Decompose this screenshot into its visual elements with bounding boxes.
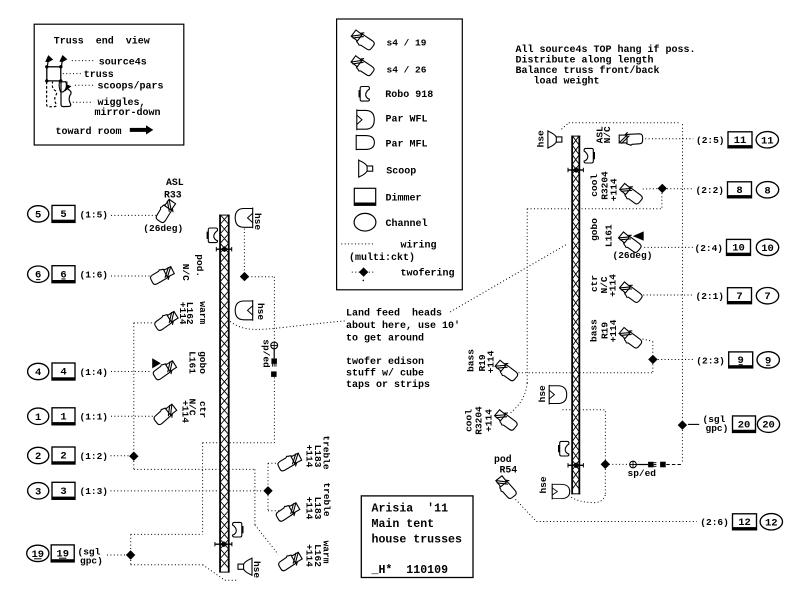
svg-text:Dimmer: Dimmer bbox=[386, 192, 422, 204]
svg-text:Channel: Channel bbox=[386, 218, 428, 230]
svg-text:+114: +114 bbox=[485, 350, 496, 373]
svg-text:2: 2 bbox=[60, 451, 66, 463]
svg-text:_H* 110109: _H* 110109 bbox=[371, 564, 449, 577]
svg-text:gpc): gpc) bbox=[706, 423, 729, 434]
svg-text:3: 3 bbox=[60, 486, 66, 498]
svg-text:(26deg): (26deg) bbox=[613, 250, 653, 261]
svg-text:(1:5): (1:5) bbox=[80, 209, 109, 220]
svg-text:(multi:ckt): (multi:ckt) bbox=[349, 252, 415, 264]
svg-text:8: 8 bbox=[736, 185, 742, 197]
svg-text:R33: R33 bbox=[164, 189, 182, 200]
svg-text:about here, use 10': about here, use 10' bbox=[346, 320, 460, 332]
svg-text:(1:2): (1:2) bbox=[80, 451, 109, 462]
svg-text:6: 6 bbox=[60, 269, 66, 281]
svg-text:11: 11 bbox=[734, 135, 747, 147]
svg-text:source4s: source4s bbox=[99, 58, 147, 69]
svg-text:house trusses: house trusses bbox=[372, 533, 462, 546]
svg-text:L161: L161 bbox=[187, 351, 198, 374]
svg-text:2: 2 bbox=[35, 451, 41, 463]
svg-text:7: 7 bbox=[736, 291, 742, 303]
svg-text:wiring: wiring bbox=[401, 239, 437, 251]
svg-text:L161: L161 bbox=[603, 224, 614, 247]
svg-text:gpc): gpc) bbox=[80, 556, 103, 567]
svg-text:twofer edison: twofer edison bbox=[346, 356, 424, 368]
svg-text:Arisia '11: Arisia '11 bbox=[372, 503, 449, 516]
svg-text:Distribute along length: Distribute along length bbox=[516, 55, 654, 67]
svg-text:mirror-down: mirror-down bbox=[95, 107, 161, 119]
svg-text:warm: warm bbox=[197, 301, 208, 324]
svg-text:truss: truss bbox=[84, 70, 114, 81]
svg-text:11: 11 bbox=[761, 135, 774, 147]
svg-text:toward room: toward room bbox=[56, 126, 122, 138]
svg-text:+114: +114 bbox=[608, 319, 619, 342]
svg-text:(2:2): (2:2) bbox=[696, 185, 725, 196]
svg-text:+114: +114 bbox=[304, 497, 315, 520]
svg-text:wiggles,: wiggles, bbox=[98, 97, 146, 109]
svg-text:(26deg): (26deg) bbox=[143, 223, 183, 234]
svg-text:Scoop: Scoop bbox=[386, 166, 416, 177]
svg-text:Balance truss front/back: Balance truss front/back bbox=[516, 65, 660, 77]
svg-text:ctr: ctr bbox=[197, 401, 208, 418]
svg-text:Par MFL: Par MFL bbox=[386, 140, 428, 151]
svg-text:N/C: N/C bbox=[602, 126, 613, 143]
svg-text:5: 5 bbox=[35, 209, 41, 221]
svg-text:+114: +114 bbox=[484, 409, 495, 432]
svg-text:hse: hse bbox=[537, 385, 548, 402]
svg-text:+114: +114 bbox=[180, 400, 191, 423]
svg-text:scoops/pars: scoops/pars bbox=[98, 80, 164, 92]
svg-text:5: 5 bbox=[60, 209, 66, 221]
svg-text:pod.: pod. bbox=[194, 254, 205, 277]
svg-text:hse: hse bbox=[251, 561, 262, 578]
svg-text:(2:5): (2:5) bbox=[696, 135, 725, 146]
svg-text:hse: hse bbox=[536, 130, 547, 147]
svg-text:hse: hse bbox=[252, 213, 263, 230]
svg-text:+114: +114 bbox=[609, 178, 620, 201]
svg-text:+114: +114 bbox=[177, 302, 188, 325]
svg-text:(1:4): (1:4) bbox=[80, 367, 109, 378]
svg-text:12: 12 bbox=[738, 517, 751, 529]
svg-text:10: 10 bbox=[732, 243, 745, 255]
svg-text:s4 / 26: s4 / 26 bbox=[387, 64, 427, 75]
svg-text:8: 8 bbox=[764, 185, 770, 197]
svg-text:3: 3 bbox=[35, 486, 41, 498]
svg-text:s4 / 19: s4 / 19 bbox=[387, 37, 427, 48]
svg-text:N/C: N/C bbox=[180, 264, 191, 281]
svg-text:(1:6): (1:6) bbox=[80, 270, 109, 281]
svg-text:9: 9 bbox=[738, 355, 744, 367]
svg-text:7: 7 bbox=[764, 291, 770, 303]
svg-text:12: 12 bbox=[765, 517, 778, 529]
svg-text:sp/ed: sp/ed bbox=[261, 339, 272, 368]
svg-text:19: 19 bbox=[56, 549, 69, 561]
svg-text:(2:1): (2:1) bbox=[696, 291, 725, 302]
svg-text:Main tent: Main tent bbox=[372, 518, 435, 531]
svg-text:R54: R54 bbox=[500, 464, 518, 475]
svg-text:twofering: twofering bbox=[401, 268, 455, 280]
svg-text:Truss end view: Truss end view bbox=[54, 36, 150, 48]
svg-text:1: 1 bbox=[35, 412, 41, 424]
svg-text:1: 1 bbox=[60, 412, 66, 424]
svg-text:hse: hse bbox=[255, 303, 266, 320]
svg-text:10: 10 bbox=[761, 243, 774, 255]
svg-text:+114: +114 bbox=[607, 274, 618, 297]
svg-text:(2:4): (2:4) bbox=[695, 243, 724, 254]
svg-text:+114: +114 bbox=[304, 445, 315, 468]
svg-text:(1:3): (1:3) bbox=[80, 486, 109, 497]
svg-text:sp/ed: sp/ed bbox=[628, 468, 657, 479]
svg-text:taps or strips: taps or strips bbox=[346, 379, 430, 391]
svg-text:Robo 918: Robo 918 bbox=[385, 89, 433, 101]
svg-text:cool: cool bbox=[589, 174, 600, 197]
svg-text:4: 4 bbox=[35, 367, 41, 379]
svg-text:ASL: ASL bbox=[166, 177, 184, 188]
svg-text:hse: hse bbox=[538, 476, 549, 493]
svg-text:stuff w/ cube: stuff w/ cube bbox=[346, 368, 424, 380]
svg-text:Par WFL: Par WFL bbox=[386, 115, 428, 126]
svg-text:bass: bass bbox=[588, 319, 599, 342]
svg-text:+114: +114 bbox=[304, 544, 315, 567]
svg-text:gobo: gobo bbox=[589, 218, 600, 241]
svg-text:20: 20 bbox=[738, 419, 751, 431]
svg-text:gobo: gobo bbox=[197, 351, 208, 374]
svg-text:to get around: to get around bbox=[346, 332, 424, 344]
svg-text:(2:3): (2:3) bbox=[696, 355, 725, 366]
svg-text:4: 4 bbox=[60, 367, 66, 379]
svg-text:All source4s TOP hang if poss.: All source4s TOP hang if poss. bbox=[516, 44, 696, 56]
svg-text:Land feed heads: Land feed heads bbox=[346, 307, 442, 319]
svg-text:20: 20 bbox=[762, 420, 775, 432]
svg-text:(2:6): (2:6) bbox=[700, 517, 729, 528]
svg-text:(1:1): (1:1) bbox=[80, 412, 109, 423]
svg-text:bass: bass bbox=[465, 349, 476, 372]
svg-text:load weight: load weight bbox=[516, 76, 600, 88]
